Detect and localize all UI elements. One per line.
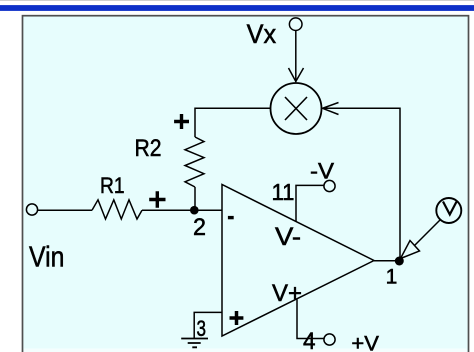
net label +V <box>351 333 379 352</box>
svg-text:+V: +V <box>351 333 379 352</box>
svg-text:11: 11 <box>272 179 295 205</box>
wire ground to op-amp non-inverting input <box>194 312 222 338</box>
terminal Vx <box>289 18 302 31</box>
pin number 3 <box>197 316 207 341</box>
pin number 4 <box>303 329 316 352</box>
pin number 2 <box>193 214 206 241</box>
pin number 1 <box>386 265 398 288</box>
label R2 <box>135 135 162 162</box>
svg-text:R2: R2 <box>135 135 162 162</box>
terminal +V pin 4 <box>324 334 335 345</box>
plus input mark <box>230 311 244 325</box>
op-amp <box>222 185 374 337</box>
wire op-amp output to node 1 <box>374 260 399 262</box>
junction node 2 <box>190 206 199 215</box>
svg-text:Vx: Vx <box>247 19 277 49</box>
svg-text:2: 2 <box>193 214 206 241</box>
multiplier <box>271 83 322 134</box>
wire feedback from node 1 to multiplier with arrowhead <box>323 103 401 261</box>
wire V- pin to -V terminal <box>296 185 324 222</box>
pin label V- <box>275 224 301 251</box>
label R1 <box>100 173 125 198</box>
wire V+ pin to +V terminal <box>297 300 324 339</box>
wire Vx down to multiplier with arrowhead <box>289 31 304 83</box>
plus polarity mark at inverting input wire <box>149 191 165 207</box>
resistor R2 <box>185 137 204 187</box>
wire R1 to node 2 <box>142 209 222 211</box>
pin label V+ <box>272 280 302 307</box>
wire Vin terminal to R1 <box>38 209 92 211</box>
wire R2 top to multiplier <box>195 108 271 137</box>
svg-text:V-: V- <box>275 224 301 251</box>
resistor R1 <box>92 200 142 219</box>
pin number 11 <box>272 179 295 205</box>
svg-text:Vin: Vin <box>29 242 64 274</box>
svg-text:-V: -V <box>310 159 334 184</box>
wire node 2 up to R2 <box>194 187 196 210</box>
ground <box>181 339 208 348</box>
net label Vin <box>29 242 64 274</box>
svg-text:4: 4 <box>303 329 316 352</box>
svg-text:R1: R1 <box>100 173 125 198</box>
voltmeter probe arrowhead <box>401 241 420 259</box>
voltmeter probe V <box>436 198 461 223</box>
svg-text:1: 1 <box>386 265 398 288</box>
terminal -V <box>324 180 335 191</box>
net label -V <box>310 159 334 184</box>
terminal Vin <box>26 204 37 215</box>
voltmeter probe lead wire <box>415 220 441 246</box>
minus input mark <box>228 216 234 219</box>
net label Vx <box>247 19 277 49</box>
junction node 1 <box>395 257 404 266</box>
svg-text:3: 3 <box>197 316 207 341</box>
plus polarity mark at R2 top <box>174 114 189 129</box>
